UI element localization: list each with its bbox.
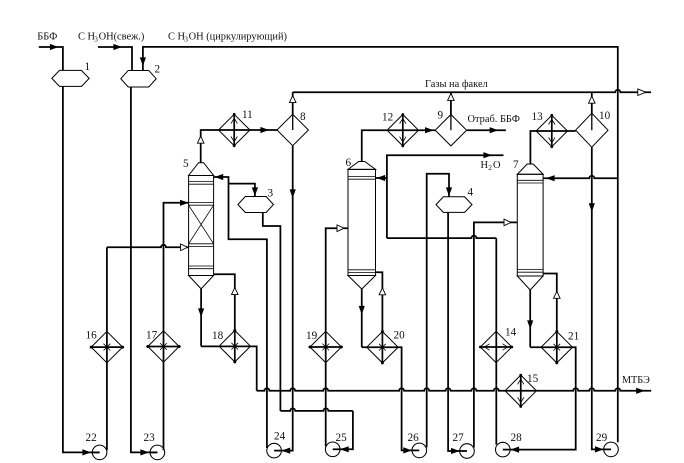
svg-text:11: 11 bbox=[242, 109, 253, 121]
svg-text:ОН (циркулирующий): ОН (циркулирующий) bbox=[189, 31, 287, 42]
svg-text:3: 3 bbox=[184, 35, 188, 44]
svg-text:18: 18 bbox=[212, 330, 224, 342]
svg-text:23: 23 bbox=[144, 432, 156, 444]
svg-text:26: 26 bbox=[408, 432, 420, 444]
svg-text:15: 15 bbox=[527, 373, 539, 385]
svg-text:3: 3 bbox=[268, 188, 274, 200]
svg-text:Н: Н bbox=[481, 160, 489, 171]
svg-text:4: 4 bbox=[468, 187, 474, 199]
svg-text:19: 19 bbox=[306, 330, 318, 342]
svg-text:21: 21 bbox=[568, 331, 579, 343]
svg-text:8: 8 bbox=[300, 111, 306, 123]
svg-text:5: 5 bbox=[183, 158, 189, 170]
svg-text:17: 17 bbox=[146, 330, 158, 342]
svg-text:25: 25 bbox=[336, 432, 348, 444]
svg-text:20: 20 bbox=[394, 330, 406, 342]
svg-text:14: 14 bbox=[505, 327, 517, 339]
svg-text:С Н: С Н bbox=[78, 31, 96, 42]
svg-text:С Н: С Н bbox=[168, 31, 186, 42]
svg-text:28: 28 bbox=[511, 432, 523, 444]
svg-text:24: 24 bbox=[274, 431, 286, 443]
svg-text:3: 3 bbox=[94, 35, 98, 44]
svg-text:МТБЭ: МТБЭ bbox=[622, 375, 650, 386]
svg-text:1: 1 bbox=[85, 61, 91, 73]
svg-text:Газы на факел: Газы на факел bbox=[425, 79, 488, 90]
svg-text:16: 16 bbox=[86, 330, 98, 342]
svg-text:Отраб. ББФ: Отраб. ББФ bbox=[468, 114, 520, 125]
svg-text:9: 9 bbox=[438, 110, 444, 122]
svg-text:6: 6 bbox=[346, 157, 352, 169]
svg-text:29: 29 bbox=[596, 432, 608, 444]
svg-text:27: 27 bbox=[453, 432, 465, 444]
svg-text:2: 2 bbox=[488, 163, 492, 172]
svg-text:13: 13 bbox=[532, 111, 544, 123]
svg-text:ОН(свеж.): ОН(свеж.) bbox=[99, 31, 145, 42]
svg-text:10: 10 bbox=[599, 110, 611, 122]
svg-text:12: 12 bbox=[382, 112, 393, 124]
svg-text:ББФ: ББФ bbox=[37, 31, 57, 42]
svg-text:2: 2 bbox=[155, 64, 161, 76]
svg-text:О: О bbox=[493, 160, 501, 171]
svg-text:22: 22 bbox=[86, 432, 97, 444]
svg-text:7: 7 bbox=[513, 159, 519, 171]
